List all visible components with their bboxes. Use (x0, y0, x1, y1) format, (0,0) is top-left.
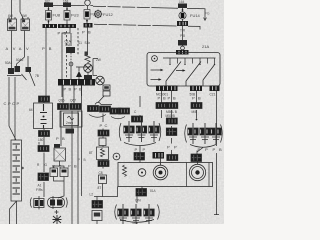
svg-text:A1: A1 (38, 184, 42, 188)
svg-text:C: C (105, 123, 108, 128)
svg-text:50A1: 50A1 (5, 61, 13, 65)
svg-text:P: P (56, 136, 59, 141)
svg-text:8T: 8T (89, 151, 93, 155)
svg-text:64: 64 (29, 108, 33, 112)
svg-text:P/B: P/B (180, 34, 185, 38)
svg-text:V: V (13, 46, 16, 51)
svg-text:C8: C8 (99, 171, 103, 175)
svg-text:FU8: FU8 (53, 13, 61, 18)
svg-text:T/R: T/R (180, 29, 186, 33)
svg-text:160: 160 (38, 97, 44, 101)
svg-text:P: P (68, 164, 71, 169)
svg-text:164: 164 (179, 0, 185, 4)
svg-text:P: P (58, 31, 61, 36)
svg-text:P: P (8, 101, 11, 106)
svg-text:M1: M1 (133, 221, 138, 224)
svg-text:81A: 81A (150, 189, 157, 193)
svg-text:FG: FG (205, 12, 210, 16)
svg-text:P: P (174, 145, 177, 150)
svg-text:P: P (213, 147, 216, 152)
svg-text:8T: 8T (98, 186, 102, 190)
svg-text:A: A (19, 46, 22, 51)
svg-text:P: P (143, 147, 146, 152)
svg-text:B: B (49, 46, 52, 51)
svg-text:B: B (62, 136, 65, 141)
svg-text:FU1: FU1 (91, 13, 97, 17)
svg-text:2W: 2W (96, 58, 101, 62)
svg-text:162: 162 (45, 0, 51, 4)
svg-text:B: B (198, 96, 201, 101)
svg-text:P: P (74, 87, 77, 92)
svg-text:L2: L2 (90, 193, 94, 197)
svg-text:V: V (26, 46, 29, 51)
svg-text:P: P (42, 46, 45, 51)
svg-text:B: B (38, 142, 40, 146)
svg-text:B: B (88, 30, 91, 35)
svg-text:MC5001: MC5001 (156, 93, 168, 97)
svg-text:P: P (17, 101, 20, 106)
svg-text:Q67: Q67 (70, 99, 76, 103)
svg-text:Q66: Q66 (59, 99, 65, 103)
svg-text:2mm: 2mm (66, 121, 73, 125)
svg-text:B: B (219, 147, 222, 152)
svg-text:163: 163 (63, 0, 69, 4)
svg-text:6W: 6W (22, 14, 27, 18)
svg-text:6W: 6W (8, 14, 13, 18)
svg-text:R: R (52, 164, 55, 169)
svg-text:B: B (74, 164, 77, 169)
svg-text:C: C (59, 164, 62, 169)
svg-text:FU14: FU14 (190, 13, 201, 18)
svg-text:B: B (84, 158, 86, 162)
svg-text:M50/B: M50/B (166, 114, 175, 118)
svg-text:50B: 50B (190, 93, 196, 97)
svg-text:50A2: 50A2 (16, 58, 24, 62)
svg-text:B: B (64, 31, 67, 36)
svg-text:P: P (198, 147, 201, 152)
svg-text:FU12: FU12 (103, 12, 114, 17)
svg-text:C21: C21 (210, 93, 216, 97)
svg-text:P: P (135, 147, 138, 152)
svg-text:7A8: 7A8 (65, 43, 71, 47)
svg-text:FU3: FU3 (71, 13, 79, 18)
svg-text:P: P (82, 30, 85, 35)
svg-text:P: P (64, 87, 67, 92)
svg-text:C: C (12, 101, 15, 106)
svg-text:P: P (78, 158, 80, 162)
svg-text:B: B (79, 87, 82, 92)
svg-text:S1b: S1b (85, 41, 91, 45)
svg-text:C/N: C/N (135, 199, 141, 203)
svg-text:21A: 21A (202, 44, 209, 49)
svg-text:B: B (69, 87, 72, 92)
svg-text:S1: S1 (78, 41, 82, 45)
svg-text:P: P (100, 123, 103, 128)
svg-text:C: C (4, 101, 7, 106)
svg-text:M/B: M/B (192, 110, 198, 114)
svg-text:A: A (6, 46, 9, 51)
svg-text:P: P (167, 145, 170, 150)
svg-text:B: B (173, 96, 176, 101)
svg-text:P: P (205, 147, 208, 152)
svg-text:7B: 7B (35, 74, 39, 78)
